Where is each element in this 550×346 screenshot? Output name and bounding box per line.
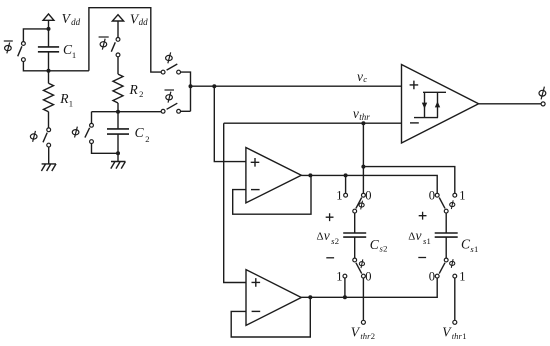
svg-text:R: R — [59, 91, 69, 106]
switch phi2 arm — [85, 128, 90, 138]
wire lower right 1 contact to Vthr1 terminal — [454, 278, 456, 320]
label phibar2 — [100, 39, 107, 50]
wire U2 output line to right lower 0 contact — [301, 276, 437, 297]
junction vc branch — [212, 84, 216, 88]
label phi S4 — [450, 259, 455, 268]
switch phibar series right contact — [177, 109, 181, 113]
label phibar1 — [5, 43, 12, 54]
svg-text:c: c — [363, 74, 367, 84]
wire C1 top node to reset switch phibar1 — [23, 29, 48, 44]
label phi series — [166, 52, 173, 63]
label phi S3 — [450, 200, 455, 209]
wire switch phi2 to C2 bottom node — [92, 144, 119, 154]
junction C1 bottom node — [47, 69, 51, 73]
U3 plus sign — [410, 81, 419, 90]
wire U2 feedback loop — [231, 298, 310, 338]
label plus Cs2 — [326, 213, 334, 221]
svg-text:1: 1 — [462, 331, 466, 341]
wire R2-C2 node horizontal — [92, 111, 164, 113]
wire Cs1 to S4 pole — [445, 237, 447, 260]
svg-text:Δ: Δ — [316, 231, 323, 243]
wire node to C2 — [117, 112, 119, 129]
junction lower rail to left 1 — [343, 295, 347, 299]
U2 plus sign — [252, 278, 261, 287]
switch S4 arm — [439, 263, 445, 274]
label phi1 — [30, 131, 37, 142]
switch phibar2 bottom contact — [116, 53, 120, 57]
wire R2 to node — [117, 103, 119, 112]
svg-text:1: 1 — [69, 98, 73, 108]
svg-text:2: 2 — [335, 236, 339, 246]
switch S1 contact 0 (upper left) — [362, 193, 366, 197]
svg-text:thr: thr — [359, 112, 370, 122]
U2 minus sign — [252, 310, 261, 312]
label phi S1 — [359, 201, 364, 210]
switch S4 pole contact (lower right) — [444, 258, 448, 262]
junction C2 bottom node — [116, 151, 120, 155]
svg-text:R: R — [129, 82, 139, 97]
svg-text:1: 1 — [474, 244, 478, 254]
junction U2 output — [308, 295, 312, 299]
comparator U3 — [402, 65, 479, 144]
ground (branch 1) — [41, 164, 56, 171]
svg-text:thr: thr — [360, 331, 371, 341]
junction output line to left 1 — [344, 173, 348, 177]
resistor R2 — [113, 74, 123, 103]
wire vc rail — [191, 85, 402, 87]
svg-text:Δ: Δ — [408, 231, 415, 243]
capacitor C1 top plate — [38, 46, 59, 48]
terminal Vthr2 — [361, 320, 365, 324]
capacitor Cs1 bottom plate — [435, 236, 458, 238]
wire U3 output — [479, 103, 542, 105]
switch S1 pole contact — [353, 209, 357, 213]
junction vthr to right group — [361, 165, 365, 169]
switch phi2 bottom contact — [90, 140, 94, 144]
wire switch phi1 to ground — [48, 147, 50, 164]
switch phibar1 top contact — [22, 42, 26, 46]
wire vc branch to buffer1 + — [214, 86, 246, 161]
switch S1 arm — [356, 198, 362, 209]
switch phibar1 arm — [18, 46, 22, 56]
switch phi series left contact — [161, 70, 165, 74]
switch S3 contact 1 (upper right) — [453, 193, 457, 197]
switch S2 pole contact (lower left) — [353, 258, 357, 262]
capacitor C2 top plate — [107, 128, 129, 130]
label phi output — [539, 87, 546, 100]
wire bracket C1 node to series switch phi — [89, 8, 163, 72]
wire vthr rail — [224, 122, 402, 124]
power Vdd symbol (branch 2) — [112, 15, 123, 21]
svg-text:1: 1 — [336, 189, 342, 203]
switch S3 contact 0 (upper right) — [435, 193, 439, 197]
wire Vdd2 to switch phibar2 — [117, 21, 119, 39]
switch S3 pole contact — [444, 209, 448, 213]
switch S4 contact 0 (lower right) — [435, 274, 439, 278]
svg-text:thr: thr — [452, 331, 463, 341]
label phi2 — [72, 127, 79, 138]
label plus Cs1 — [419, 212, 427, 220]
switch phibar2 top contact — [116, 38, 120, 42]
junction vthr branch — [361, 121, 365, 125]
junction C1 top node — [47, 27, 51, 31]
hysteresis symbol bottom line — [414, 117, 438, 119]
label minus Cs1 — [418, 257, 426, 259]
switch S3 arm — [439, 198, 445, 209]
wire R1 to switch phi1 — [48, 112, 50, 130]
switch phi2 top contact — [90, 123, 94, 127]
svg-text:2: 2 — [371, 331, 375, 341]
capacitor C2 bottom plate — [107, 133, 129, 135]
wire lower left 1 contact down to output line — [344, 276, 346, 297]
svg-text:0: 0 — [429, 189, 435, 203]
svg-text:V: V — [442, 325, 452, 340]
switch phi series arm — [167, 64, 178, 70]
wire U1 feedback loop — [233, 175, 311, 214]
svg-text:C: C — [135, 125, 145, 140]
wire Cs2 to S2 pole — [354, 237, 356, 260]
switch S4 contact 1 (lower right) — [453, 274, 457, 278]
switch phibar series left contact — [161, 109, 165, 113]
op-amp buffer U2 — [246, 270, 301, 326]
switch phibar2 arm — [111, 42, 115, 51]
label phibar series — [166, 92, 173, 103]
svg-text:1: 1 — [427, 236, 431, 246]
svg-text:0: 0 — [365, 189, 371, 203]
switch S2 contact 0 (lower left) — [362, 274, 366, 278]
wire vthr branch horizontal to right 1 contact — [363, 167, 454, 196]
svg-text:1: 1 — [459, 270, 465, 284]
wire phibar series switch stub — [181, 110, 191, 112]
wire branch down to left 1 contact — [345, 175, 347, 195]
junction U1 output — [308, 173, 312, 177]
wire vthr branch to buffer2 + — [224, 123, 246, 282]
svg-text:V: V — [351, 325, 361, 340]
capacitor Cs2 top plate — [343, 232, 366, 234]
wire vthr branch down to left 0 contact — [362, 123, 364, 195]
junction series switches to vc rail — [189, 84, 193, 88]
switch S2 contact 1 (lower left) — [343, 274, 347, 278]
U1 minus sign — [251, 189, 260, 191]
capacitor C1 bottom plate — [38, 51, 59, 53]
wire lower left 0 contact to Vthr2 terminal — [362, 278, 364, 320]
wire Vdd1 to C1 top node — [48, 20, 50, 47]
hysteresis symbol top line — [423, 91, 446, 93]
power Vdd symbol (branch 1) — [43, 14, 54, 20]
ground (branch 2) — [111, 162, 126, 169]
svg-text:1: 1 — [336, 270, 342, 284]
switch phi series right contact — [177, 70, 181, 74]
op-amp buffer U1 — [246, 148, 301, 203]
svg-text:v: v — [357, 69, 363, 84]
svg-text:1: 1 — [459, 189, 465, 203]
switch phibar series arm — [167, 103, 178, 109]
svg-text:v: v — [324, 228, 330, 243]
hysteresis left vertical with down arrow — [424, 92, 426, 117]
switch phibar1 bottom contact — [22, 58, 26, 62]
svg-text:C: C — [370, 237, 380, 252]
svg-text:2: 2 — [139, 89, 143, 99]
junction R2-C2 node — [116, 110, 120, 114]
wire S3 pole to Cs1 — [445, 213, 447, 233]
switch S1 contact 1 (upper left) — [344, 193, 348, 197]
terminal phi output — [541, 102, 545, 106]
svg-text:v: v — [416, 228, 422, 243]
hysteresis right vertical with up arrow — [437, 92, 439, 117]
svg-text:dd: dd — [139, 17, 149, 27]
svg-text:2: 2 — [145, 134, 149, 144]
wire phi series switch to vc rail junction — [181, 72, 191, 111]
switch phi2 wire from node — [91, 112, 93, 126]
wire S1 pole to Cs2 — [354, 213, 356, 233]
switch phi1 arm — [43, 133, 47, 143]
switch S2 arm — [356, 263, 362, 274]
label phi S2 — [359, 259, 364, 268]
wire C2 to ground — [117, 134, 119, 161]
resistor R1 — [44, 83, 54, 111]
capacitor Cs2 bottom plate — [343, 236, 366, 238]
label minus Cs2 — [326, 257, 334, 259]
wire C1 to R1 — [48, 52, 50, 84]
svg-text:0: 0 — [429, 270, 435, 284]
svg-text:V: V — [62, 11, 72, 26]
terminal Vthr1 — [453, 320, 457, 324]
svg-text:2: 2 — [383, 244, 387, 254]
svg-text:v: v — [353, 106, 359, 121]
svg-text:1: 1 — [72, 50, 76, 60]
switch phi1 top contact — [47, 128, 51, 132]
svg-text:dd: dd — [71, 17, 81, 27]
capacitor Cs1 top plate — [435, 232, 458, 234]
U3 minus sign — [410, 122, 419, 124]
wire reset switch phibar1 to C1 bottom node and bracket — [23, 62, 89, 71]
wire switch phibar2 to R2 — [117, 57, 119, 74]
wire U1 output line to right 0 contact — [301, 175, 437, 195]
svg-text:0: 0 — [365, 270, 371, 284]
U1 plus sign — [251, 158, 260, 167]
switch phi1 bottom contact — [47, 143, 51, 147]
